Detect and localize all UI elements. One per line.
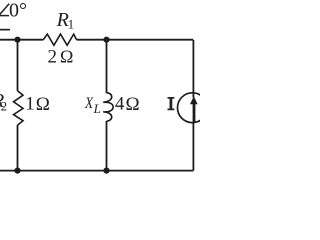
svg-text:2: 2 bbox=[48, 46, 58, 67]
wire: XL branch bottom lead bbox=[106, 121, 108, 171]
wire: R2 branch top lead bbox=[17, 40, 19, 91]
wire: bottom bbox=[0, 170, 193, 172]
svg-text:2: 2 bbox=[1, 98, 8, 113]
resistor R1 bbox=[43, 34, 76, 45]
node dot top R2 bbox=[14, 37, 20, 43]
wire: right vertical lower bbox=[192, 122, 194, 170]
svg-text:1: 1 bbox=[25, 94, 35, 115]
svg-text:0°: 0° bbox=[9, 0, 27, 21]
current source arrowhead bbox=[190, 96, 198, 104]
wire: top left segment bbox=[0, 39, 43, 41]
svg-text:Ω: Ω bbox=[60, 46, 73, 66]
wire: XL branch top lead bbox=[106, 40, 108, 93]
svg-text:Ω: Ω bbox=[126, 94, 140, 115]
svg-text:1: 1 bbox=[68, 17, 75, 32]
node dot bottom XL bbox=[103, 168, 109, 174]
label I (current source) bbox=[168, 97, 175, 110]
wire: top right segment bbox=[77, 39, 193, 41]
svg-text:Ω: Ω bbox=[36, 94, 50, 115]
wire: R2 branch bottom lead bbox=[17, 125, 19, 171]
wire: right vertical upper bbox=[192, 40, 194, 98]
current source I circle bbox=[178, 93, 208, 123]
inductor XL coil bbox=[103, 93, 113, 121]
resistor R2 bbox=[14, 91, 24, 125]
svg-text:4: 4 bbox=[115, 94, 125, 115]
svg-text:L: L bbox=[93, 101, 101, 116]
angle symbol of source label (cut off at left) bbox=[0, 4, 9, 16]
node dot top XL bbox=[103, 37, 109, 43]
node dot bottom R2 bbox=[14, 168, 20, 174]
current source arrow shaft bbox=[193, 104, 196, 123]
minus dash of cut-off source bbox=[0, 29, 10, 31]
